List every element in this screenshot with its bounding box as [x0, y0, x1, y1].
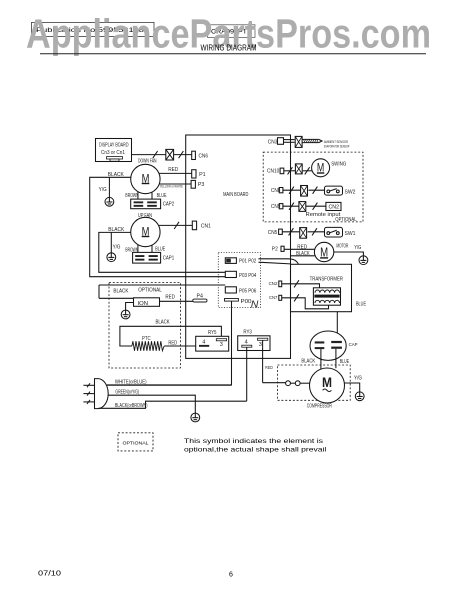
svg-text:PTC: PTC: [142, 336, 151, 342]
svg-text:RY3: RY3: [243, 330, 252, 336]
svg-text:WIRING DIAGRAM: WIRING DIAGRAM: [201, 43, 257, 52]
svg-text:SW1: SW1: [345, 231, 356, 237]
svg-text:RED: RED: [168, 167, 178, 173]
svg-text:UP FAN: UP FAN: [138, 213, 152, 219]
svg-text:RED: RED: [165, 294, 175, 300]
svg-text:DOWN FAN: DOWN FAN: [138, 158, 157, 164]
svg-text:BLUE: BLUE: [155, 247, 165, 253]
svg-text:optional,the actual shape shal: optional,the actual shape shall prevail: [184, 447, 327, 454]
svg-text:CN3: CN3: [268, 139, 278, 145]
svg-text:CN5: CN5: [268, 230, 278, 236]
svg-text:TRANSFORMER: TRANSFORMER: [310, 277, 344, 283]
svg-text:OPTIONAL: OPTIONAL: [335, 217, 356, 223]
svg-text:BLUE: BLUE: [340, 359, 350, 365]
svg-text:BLUE: BLUE: [356, 302, 367, 308]
svg-text:P1: P1: [199, 172, 206, 178]
svg-text:YELLOW or WHITE: YELLOW or WHITE: [160, 185, 183, 189]
svg-text:This symbol indicates the elem: This symbol indicates the element is: [184, 438, 324, 445]
svg-text:P05 P06: P05 P06: [239, 288, 256, 294]
svg-text:3: 3: [259, 342, 262, 348]
svg-text:Y/G: Y/G: [354, 376, 362, 382]
svg-text:CN10: CN10: [267, 169, 279, 175]
svg-text:ION: ION: [138, 301, 149, 307]
svg-text:BROWN: BROWN: [125, 193, 138, 199]
svg-text:Y/G: Y/G: [354, 245, 361, 251]
svg-text:RED: RED: [168, 341, 177, 347]
svg-text:4: 4: [245, 340, 248, 346]
svg-text:BLUE: BLUE: [157, 193, 167, 199]
svg-text:6: 6: [229, 572, 233, 579]
svg-text:BLACK: BLACK: [156, 319, 171, 325]
svg-text:EVAPORATOR SENSOR: EVAPORATOR SENSOR: [324, 143, 350, 148]
svg-text:CAP2: CAP2: [163, 202, 175, 208]
svg-text:CN9: CN9: [271, 204, 281, 210]
svg-text:P3: P3: [198, 182, 205, 188]
svg-text:CN8: CN8: [271, 188, 281, 194]
svg-text:SWING: SWING: [331, 162, 346, 168]
svg-text:07/10: 07/10: [38, 571, 61, 578]
svg-text:RED: RED: [297, 245, 307, 251]
svg-text:BLACK: BLACK: [108, 172, 124, 178]
svg-text:CAP1: CAP1: [163, 256, 175, 262]
svg-text:P2: P2: [272, 247, 278, 253]
svg-text:Y/G: Y/G: [99, 187, 107, 193]
svg-text:CAP: CAP: [349, 342, 358, 348]
svg-text:M: M: [322, 374, 332, 390]
svg-text:OPTIONAL: OPTIONAL: [138, 288, 162, 294]
svg-text:P03 P04: P03 P04: [239, 273, 256, 279]
svg-text:SW2: SW2: [345, 189, 356, 195]
svg-text:N: N: [251, 299, 259, 311]
svg-text:MOTOR: MOTOR: [336, 244, 348, 250]
svg-text:Y/G: Y/G: [113, 245, 121, 251]
svg-text:Cn3 or Cn1: Cn3 or Cn1: [101, 150, 125, 156]
svg-text:OPTIONAL: OPTIONAL: [123, 440, 149, 445]
svg-text:CN2: CN2: [329, 205, 340, 211]
svg-text:DISPLAY BOARD: DISPLAY BOARD: [99, 142, 129, 148]
svg-text:BLACK: BLACK: [301, 359, 315, 365]
svg-text:CN7: CN7: [269, 295, 278, 301]
svg-text:CN6: CN6: [199, 153, 209, 159]
svg-text:CN2: CN2: [269, 281, 278, 287]
svg-text:CN1: CN1: [201, 224, 211, 230]
svg-text:BROWN: BROWN: [125, 247, 138, 253]
svg-text:RY5: RY5: [208, 330, 217, 336]
svg-text:3: 3: [220, 342, 223, 348]
svg-text:BLACK: BLACK: [108, 227, 124, 233]
svg-text:BLACK: BLACK: [113, 289, 128, 295]
svg-text:4: 4: [202, 340, 205, 346]
svg-text:MAIN BOARD: MAIN BOARD: [223, 192, 248, 198]
svg-text:COMPRESSOR: COMPRESSOR: [307, 404, 332, 410]
svg-text:BLACK: BLACK: [296, 251, 310, 257]
svg-text:GREEN(orY/G): GREEN(orY/G): [115, 389, 139, 395]
svg-text:P01 P02: P01 P02: [239, 259, 256, 265]
svg-text:WHITE(orBLUE): WHITE(orBLUE): [115, 380, 147, 386]
svg-text:RED: RED: [265, 365, 273, 370]
svg-text:P4: P4: [197, 293, 204, 299]
